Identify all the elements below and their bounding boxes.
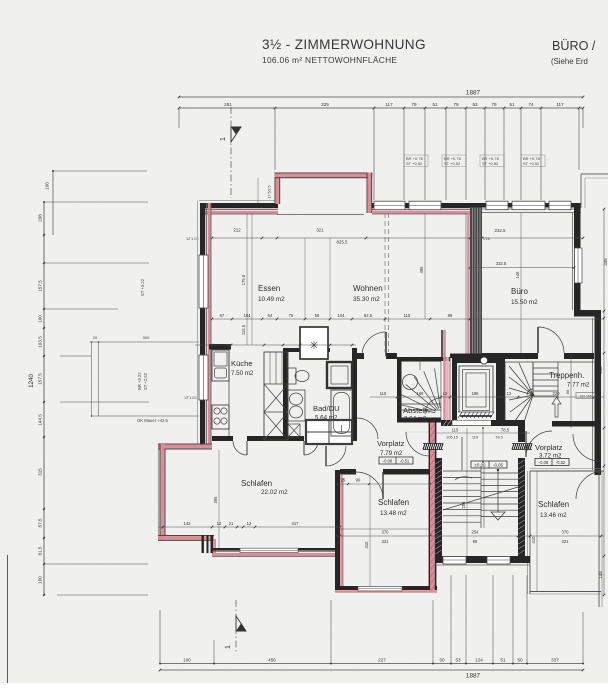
svg-text:ST +0.52: ST +0.52 bbox=[406, 161, 423, 166]
svg-text:410: 410 bbox=[364, 541, 369, 549]
svg-text:124: 124 bbox=[475, 658, 483, 663]
svg-text:321: 321 bbox=[382, 539, 390, 544]
svg-text:5.64 m2: 5.64 m2 bbox=[315, 415, 338, 422]
svg-text:117: 117 bbox=[385, 102, 393, 107]
svg-text:208: 208 bbox=[38, 214, 43, 222]
svg-text:-0.05: -0.05 bbox=[493, 463, 504, 468]
svg-text:1240: 1240 bbox=[28, 374, 35, 388]
svg-text:227: 227 bbox=[378, 658, 386, 663]
svg-text:21: 21 bbox=[229, 521, 234, 526]
svg-text:ST +2.52: ST +2.52 bbox=[143, 372, 148, 390]
svg-text:88: 88 bbox=[448, 313, 453, 318]
svg-text:51: 51 bbox=[500, 658, 506, 663]
svg-text:212: 212 bbox=[233, 228, 241, 233]
svg-text:395: 395 bbox=[213, 496, 218, 504]
svg-text:417: 417 bbox=[292, 521, 300, 526]
svg-text:35.30 m2: 35.30 m2 bbox=[353, 296, 380, 303]
svg-text:Schlafen: Schlafen bbox=[538, 500, 569, 509]
svg-text:240: 240 bbox=[598, 366, 603, 374]
svg-text:100: 100 bbox=[38, 315, 43, 323]
svg-text:90: 90 bbox=[356, 478, 361, 483]
svg-text:281: 281 bbox=[224, 102, 232, 107]
svg-text:58: 58 bbox=[315, 313, 320, 318]
svg-text:100: 100 bbox=[183, 658, 191, 663]
svg-text:115: 115 bbox=[380, 391, 387, 396]
svg-text:79: 79 bbox=[491, 102, 497, 107]
svg-text:144.5: 144.5 bbox=[38, 414, 43, 426]
svg-text:300: 300 bbox=[143, 335, 150, 340]
svg-text:75: 75 bbox=[289, 313, 294, 318]
svg-text:53: 53 bbox=[472, 102, 478, 107]
svg-text:1: 1 bbox=[223, 645, 232, 649]
svg-text:220: 220 bbox=[553, 391, 561, 396]
svg-text:Bad/DU: Bad/DU bbox=[313, 404, 340, 413]
svg-text:825.5: 825.5 bbox=[337, 240, 349, 245]
svg-text:175.5: 175.5 bbox=[241, 274, 246, 285]
svg-text:13.48 m2: 13.48 m2 bbox=[380, 510, 407, 517]
svg-text:Wohnen: Wohnen bbox=[353, 284, 383, 293]
svg-text:Küche: Küche bbox=[231, 359, 253, 368]
svg-text:12’1.03: 12’1.03 bbox=[184, 396, 196, 400]
svg-text:12: 12 bbox=[507, 391, 512, 396]
svg-text:88: 88 bbox=[565, 389, 570, 394]
svg-text:78.5: 78.5 bbox=[501, 428, 510, 433]
svg-text:87.5: 87.5 bbox=[38, 518, 43, 527]
svg-text:22.02 m2: 22.02 m2 bbox=[261, 489, 288, 496]
svg-text:1887: 1887 bbox=[466, 673, 481, 680]
svg-text:ST +0.52: ST +0.52 bbox=[482, 161, 499, 166]
svg-text:51: 51 bbox=[509, 102, 515, 107]
svg-text:10.49 m2: 10.49 m2 bbox=[258, 296, 285, 303]
svg-text:-0.51: -0.51 bbox=[400, 459, 410, 464]
svg-text:50: 50 bbox=[517, 658, 523, 663]
svg-text:Treppenh.: Treppenh. bbox=[549, 371, 584, 380]
svg-text:12: 12 bbox=[217, 521, 222, 526]
svg-text:79: 79 bbox=[411, 102, 417, 107]
svg-text:1887: 1887 bbox=[466, 90, 481, 97]
svg-text:Vorplatz: Vorplatz bbox=[377, 439, 405, 448]
svg-text:Essen: Essen bbox=[258, 284, 280, 293]
svg-text:370: 370 bbox=[562, 530, 570, 535]
svg-text:74: 74 bbox=[528, 102, 534, 107]
svg-text:1: 1 bbox=[218, 137, 227, 141]
svg-text:Schlafen: Schlafen bbox=[378, 498, 409, 507]
svg-text:325: 325 bbox=[321, 102, 329, 107]
svg-text:✳: ✳ bbox=[309, 340, 318, 352]
svg-text:ST +3.22: ST +3.22 bbox=[140, 278, 145, 296]
svg-text:12: 12 bbox=[247, 521, 252, 526]
svg-text:103.5: 103.5 bbox=[38, 336, 43, 348]
svg-text:79: 79 bbox=[453, 102, 459, 107]
svg-text:62.5: 62.5 bbox=[364, 313, 373, 318]
svg-text:146: 146 bbox=[515, 271, 520, 279]
svg-text:78.5: 78.5 bbox=[495, 435, 503, 440]
svg-text:106.06 m² NETTOWOHNFLÄCHE: 106.06 m² NETTOWOHNFLÄCHE bbox=[262, 55, 397, 65]
svg-text:12’1.03: 12’1.03 bbox=[186, 237, 198, 241]
svg-text:12: 12 bbox=[443, 391, 448, 396]
svg-text:7.79 m2: 7.79 m2 bbox=[380, 450, 403, 457]
svg-text:321: 321 bbox=[562, 539, 570, 544]
svg-text:104: 104 bbox=[338, 313, 346, 318]
svg-text:117: 117 bbox=[556, 102, 564, 107]
svg-text:100 165: 100 165 bbox=[579, 394, 591, 398]
svg-text:410: 410 bbox=[531, 536, 536, 544]
svg-text:254: 254 bbox=[472, 530, 480, 535]
svg-text:64: 64 bbox=[268, 313, 273, 318]
svg-text:7.77 m2: 7.77 m2 bbox=[567, 382, 590, 389]
svg-text:157.5: 157.5 bbox=[38, 280, 43, 292]
svg-text:50: 50 bbox=[439, 658, 445, 663]
svg-text:157.5: 157.5 bbox=[38, 373, 43, 385]
svg-text:51: 51 bbox=[432, 102, 438, 107]
svg-text:456: 456 bbox=[268, 658, 276, 663]
svg-text:7/16: 7/16 bbox=[482, 237, 489, 241]
svg-text:-0.08: -0.08 bbox=[383, 459, 393, 464]
svg-text:53: 53 bbox=[455, 658, 461, 663]
svg-text:Büro: Büro bbox=[511, 287, 528, 296]
svg-text:143: 143 bbox=[184, 521, 192, 526]
svg-text:321: 321 bbox=[316, 228, 324, 233]
svg-text:67: 67 bbox=[220, 313, 225, 318]
svg-text:166: 166 bbox=[417, 391, 425, 396]
svg-text:25: 25 bbox=[341, 478, 346, 483]
svg-text:Vorplatz: Vorplatz bbox=[535, 443, 563, 452]
svg-text:3½ - ZIMMERWOHNUNG: 3½ - ZIMMERWOHNUNG bbox=[262, 37, 426, 52]
svg-text:(Siehe Erd: (Siehe Erd bbox=[551, 57, 588, 66]
svg-text:100: 100 bbox=[45, 182, 50, 190]
svg-text:17.5/2.5: 17.5/2.5 bbox=[268, 186, 272, 199]
svg-text:105,15: 105,15 bbox=[446, 435, 458, 440]
svg-text:345: 345 bbox=[603, 258, 608, 266]
svg-text:Abstellr.: Abstellr. bbox=[403, 406, 430, 415]
svg-text:110: 110 bbox=[472, 435, 479, 440]
svg-text:±0.00: ±0.00 bbox=[475, 463, 487, 468]
svg-text:104: 104 bbox=[244, 313, 252, 318]
svg-text:115: 115 bbox=[404, 313, 411, 318]
svg-text:7.50 m2: 7.50 m2 bbox=[231, 370, 254, 377]
svg-text:148: 148 bbox=[598, 571, 603, 579]
svg-text:81.5: 81.5 bbox=[38, 546, 43, 555]
svg-text:255: 255 bbox=[461, 501, 466, 509]
svg-text:BÜRO /: BÜRO / bbox=[552, 39, 596, 53]
svg-text:ST +0.52: ST +0.52 bbox=[523, 161, 540, 166]
svg-text:Schlafen: Schlafen bbox=[241, 479, 272, 488]
svg-text:20: 20 bbox=[93, 335, 98, 340]
svg-text:232.5: 232.5 bbox=[495, 228, 507, 233]
svg-text:-0.52: -0.52 bbox=[556, 460, 566, 465]
svg-text:115: 115 bbox=[452, 428, 459, 433]
svg-text:332.5: 332.5 bbox=[496, 261, 507, 266]
svg-text:95: 95 bbox=[473, 539, 478, 544]
svg-text:13.46 m2: 13.46 m2 bbox=[540, 512, 567, 519]
svg-text:186: 186 bbox=[472, 391, 480, 396]
svg-text:315: 315 bbox=[38, 468, 43, 476]
svg-text:3.64 m2: 3.64 m2 bbox=[404, 416, 427, 423]
svg-text:100: 100 bbox=[38, 576, 43, 584]
svg-text:-0.08: -0.08 bbox=[539, 460, 549, 465]
svg-text:OK Mauer +43.5: OK Mauer +43.5 bbox=[137, 418, 169, 423]
svg-text:15.50 m2: 15.50 m2 bbox=[511, 299, 538, 306]
svg-text:495: 495 bbox=[419, 266, 424, 274]
svg-text:ST +0.52: ST +0.52 bbox=[444, 161, 461, 166]
svg-text:BR +3.22: BR +3.22 bbox=[137, 372, 142, 390]
svg-text:370: 370 bbox=[382, 530, 390, 535]
svg-text:337: 337 bbox=[551, 658, 559, 663]
svg-text:115.5: 115.5 bbox=[241, 324, 246, 335]
